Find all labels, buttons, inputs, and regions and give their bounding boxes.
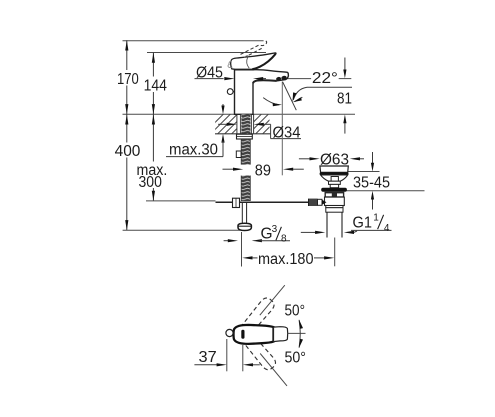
O34 dimension arrows: [218, 123, 227, 125]
bottom view handle solid: [234, 325, 274, 344]
drain bell: [320, 166, 348, 172]
drain body with slots: [325, 192, 345, 197]
max300 bottom ref line: [146, 200, 216, 202]
svg-text:8: 8: [281, 233, 287, 244]
centerline right of handle: [288, 332, 306, 334]
cap left sketchy wedge: [228, 61, 232, 68]
bottom view dashed lever upper: [240, 296, 277, 336]
svg-text:50°: 50°: [285, 350, 307, 367]
35-45 bottom ref line: [343, 190, 425, 192]
37 ext line left: [226, 339, 228, 371]
tailpiece: [326, 208, 343, 213]
dashed raised lever: [241, 41, 267, 58]
counter hatch right: [241, 114, 283, 135]
svg-text:50°: 50°: [285, 303, 306, 320]
dimension 170 line: [126, 40, 128, 114]
knurled nut on rod: [308, 199, 318, 206]
hose clamp block: [236, 151, 241, 158]
mounting nut below counter: [237, 134, 253, 139]
drain flange thick: [321, 188, 347, 192]
angle arc left: [263, 98, 279, 105]
svg-text:35-45: 35-45: [353, 174, 390, 191]
50deg lower ray: [260, 354, 287, 386]
counter bottom line: [215, 133, 271, 135]
svg-text:22°: 22°: [312, 70, 338, 87]
dimension 400 line: [126, 114, 128, 230]
35-45 top ref line: [345, 171, 380, 173]
rod ball wedge: [322, 200, 327, 205]
dimension max300 line: [152, 114, 154, 201]
400 bottom ref line: [123, 229, 241, 231]
89 dimension: [223, 168, 234, 170]
svg-text:170: 170: [117, 71, 139, 88]
G3/8 dimension: [224, 240, 229, 242]
37 ext line right: [242, 345, 244, 371]
G3/8 underline: [259, 240, 290, 242]
81 top ref line: [286, 78, 311, 80]
dimension 170 ref line top: [123, 40, 264, 42]
svg-text:89: 89: [255, 163, 271, 180]
37 dimension: [194, 364, 217, 366]
counter hatch left: [203, 114, 252, 135]
vertical ref line from spout outlet: [281, 82, 283, 176]
max180 left ext line: [241, 232, 243, 267]
svg-text:37: 37: [199, 349, 217, 366]
aerator: [276, 76, 282, 81]
svg-text:400: 400: [115, 143, 141, 160]
drain step: [326, 206, 343, 208]
O45 underline and arrows: [195, 78, 224, 80]
faucet body and spout: [235, 70, 289, 115]
max.30 underline: [166, 156, 223, 158]
cap lever joint line: [247, 57, 249, 68]
angle arc right: [295, 97, 303, 101]
water stream 22deg line: [283, 82, 297, 110]
handle lever and cap: [231, 53, 276, 69]
threaded hose lower segment: [242, 176, 251, 202]
22deg underline and leader: [307, 86, 352, 88]
svg-text:81: 81: [337, 91, 352, 108]
bottom view dashed lever lower: [241, 332, 278, 372]
35-45 arrows: [372, 152, 374, 164]
svg-text:G1: G1: [353, 215, 373, 232]
spout thick underside: [253, 80, 277, 83]
dimension 144 ref line top: [147, 52, 266, 54]
tailpipe tube: [326, 212, 328, 237]
plug stem: [331, 177, 338, 182]
svg-text:3: 3: [272, 224, 278, 235]
dimension 144 line: [152, 53, 154, 115]
svg-text:Ø63: Ø63: [320, 152, 349, 169]
pull rod knob front: [227, 89, 233, 95]
drain cone: [321, 175, 348, 181]
81 bottom arrow: [344, 123, 346, 134]
50deg upper ray: [260, 285, 285, 315]
knob circle top view: [226, 329, 233, 336]
max180 right ext line: [334, 238, 336, 267]
handle underside thick stroke: [252, 54, 275, 69]
rod joint square: [318, 199, 323, 205]
max180 dimension: [242, 256, 252, 259]
svg-text:300: 300: [139, 174, 163, 191]
pop-up rod horizontal: [216, 201, 309, 203]
counter top line: [123, 113, 356, 115]
G1 1/4 arrows: [301, 231, 316, 233]
bottom view handle tip block: [274, 327, 288, 342]
svg-text:4: 4: [384, 223, 390, 234]
threaded shank texture in counter: [241, 114, 250, 134]
svg-text:max.30: max.30: [169, 142, 218, 159]
white gaps behind texts: [115, 70, 142, 86]
rod clamp at faucet: [233, 198, 240, 207]
81 top arrow: [344, 58, 346, 71]
threaded hose upper segment: [242, 139, 251, 165]
G1 1/4 underline: [351, 229, 392, 231]
drain bell rim thick: [320, 172, 349, 175]
50deg arc: [299, 320, 300, 348]
neck block: [329, 181, 341, 184]
svg-text:max.180: max.180: [258, 251, 314, 268]
svg-text:Ø34: Ø34: [273, 125, 301, 142]
max.30 arrows: [222, 104, 224, 110]
hose below rod: [241, 202, 243, 223]
G3/8 hose nut: [238, 223, 251, 230]
hole edge lines (O34): [236, 114, 238, 134]
svg-text:Ø45: Ø45: [196, 65, 223, 82]
O63 dimension: [299, 158, 310, 160]
O34 label elbow: [270, 124, 272, 138]
svg-text:144: 144: [144, 78, 168, 95]
svg-text:1: 1: [373, 213, 379, 224]
handle slot: [241, 330, 244, 339]
